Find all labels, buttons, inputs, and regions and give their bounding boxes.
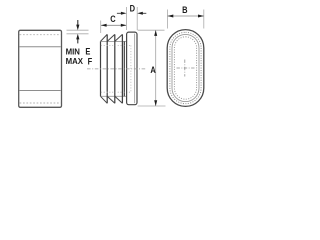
D dimension extension line right <box>136 7 138 30</box>
serration ring outer (dotted) <box>170 32 201 103</box>
shank bottom rib base line <box>101 95 127 97</box>
head rounded face tangent line <box>134 34 136 104</box>
A dimension line <box>155 30 157 106</box>
B dimension line with outward arrows <box>168 15 204 17</box>
hidden insert line bottom (dashed) <box>20 102 61 104</box>
A dimension extension line top <box>138 29 165 31</box>
label D <box>130 2 135 13</box>
D dimension extension line left <box>126 7 128 30</box>
hidden cavity wall top (dashed) <box>101 44 131 46</box>
label C <box>110 13 115 24</box>
label MIN E <box>66 47 80 56</box>
svg-text:A: A <box>150 64 155 75</box>
hidden insert line top (dashed) <box>20 34 61 36</box>
svg-text:D: D <box>130 2 135 13</box>
head tangent line lower <box>19 90 60 92</box>
insert shank left edge <box>100 41 102 96</box>
shank top rib base line <box>101 40 127 42</box>
B dimension extension line right <box>203 10 205 29</box>
label B <box>182 4 187 15</box>
centerline of section (dash-dot) <box>87 68 147 70</box>
C dimension line with outward arrows <box>101 24 126 26</box>
E/F dimension witness tick bottom <box>67 33 89 35</box>
svg-text:F: F <box>88 56 93 67</box>
serration ring inner (dotted) <box>174 37 196 99</box>
svg-text:MIN: MIN <box>66 47 80 56</box>
shank end face <box>123 41 125 96</box>
inner wall outline <box>172 34 199 101</box>
C dimension extension line left <box>100 21 102 34</box>
A dimension extension line bottom <box>138 105 166 107</box>
horizontal centerline of front view (dash-dot) <box>177 67 195 69</box>
label MAX F <box>66 56 84 65</box>
E/F dimension upper arrow <box>77 20 79 25</box>
hidden cavity wall bottom (dashed) <box>101 91 131 93</box>
rib edge vertical 2 <box>114 34 116 103</box>
rib edge vertical 3 <box>121 34 123 103</box>
hidden cavity bottom in head (dashed vertical) <box>130 45 132 92</box>
vertical centerline of front view (dash-dot) <box>184 60 186 77</box>
E/F dimension witness tick top <box>67 29 89 31</box>
svg-text:MAX: MAX <box>66 56 84 65</box>
insert head outline <box>127 32 137 105</box>
top rib fins (sawtooth) <box>101 34 123 41</box>
rib edge vertical 1 <box>106 34 108 103</box>
front view outer stadium outline <box>167 30 204 107</box>
D dimension left outside arrow <box>117 12 122 14</box>
bottom rib fins (sawtooth) <box>101 96 123 103</box>
head tangent line upper <box>19 46 60 48</box>
B dimension extension line left <box>167 10 169 29</box>
svg-text:C: C <box>110 13 115 24</box>
svg-text:B: B <box>182 4 187 15</box>
tube side view outline <box>19 30 62 107</box>
label A <box>150 64 155 75</box>
E/F dimension lower arrow <box>77 39 79 43</box>
D dimension right outside arrow <box>142 12 146 14</box>
